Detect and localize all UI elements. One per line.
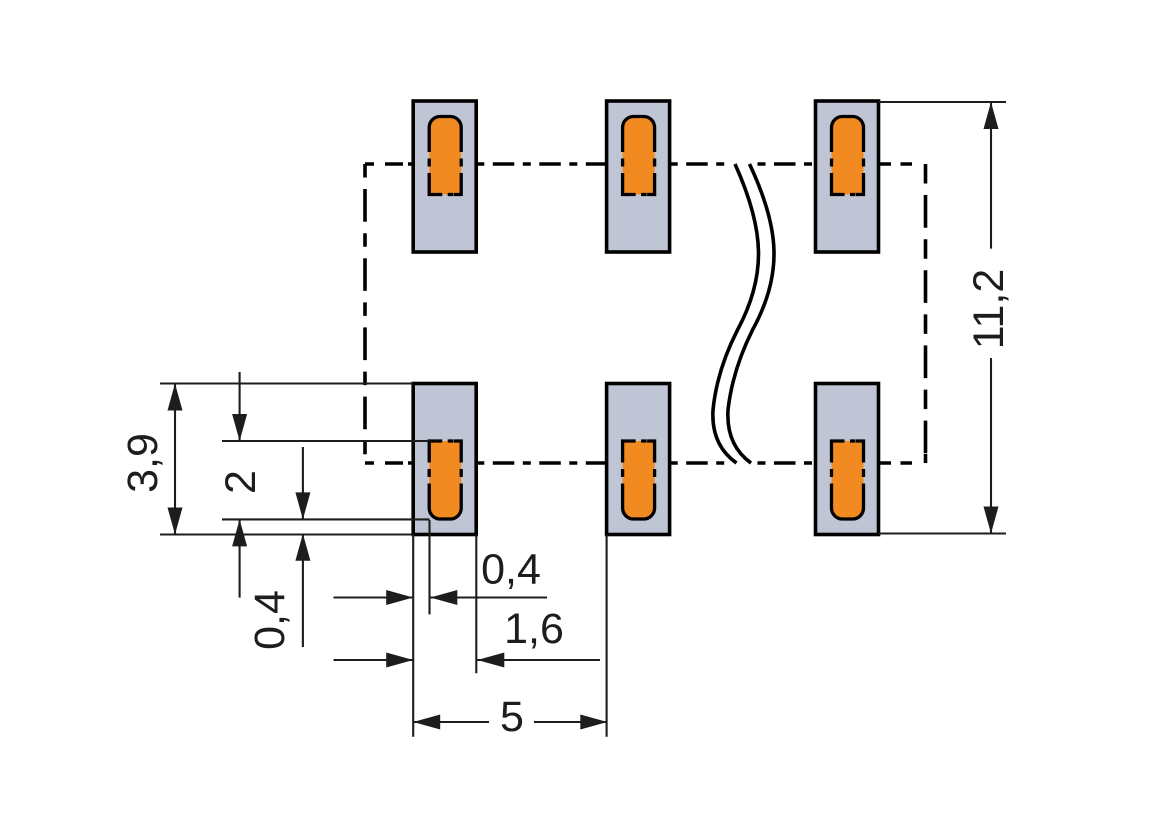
ext line orange bottom y=519.4 [222,518,430,520]
pad P5 bottom row col2 [607,384,670,535]
5 right at 607.3 [580,715,607,730]
2 down at 441 [232,414,247,441]
ext line top of bottom pad y=383.5 [160,382,413,384]
0,4B right at 413.2 [386,590,413,605]
ext vertical col2 left x=606.6 [606,535,608,737]
svg-text:5: 5 [500,693,524,741]
dim 1,6 line y=660 [334,659,601,661]
ext line orange top y=441 [222,440,430,442]
break squiggle line 2 [728,164,774,463]
3,9 down [168,508,183,535]
svg-text:0,4: 0,4 [246,590,294,650]
pad P6 bottom row col3 [816,384,879,535]
break squiggle line 1 [713,164,759,463]
svg-text:2: 2 [217,470,265,494]
ext right bottom y=533.5 [879,532,1007,534]
arrowheads [168,102,999,730]
11,2 down at 533.5 [984,507,999,534]
ext line pad bottom y=534.5 [160,533,413,535]
dim 5 line y=722 [413,721,607,723]
0,4L up at 533.8 [295,534,310,561]
11,2 up at 102 [984,102,999,129]
5 left at 413.2 [413,715,440,730]
ext right top y=102 [879,101,1007,103]
2 up at 519.4 [232,519,247,546]
1,6 left at 477.3 [477,653,504,668]
body outline left edge [363,164,367,463]
ext vertical gray left x=413.2 [412,535,414,737]
3,9 up [168,384,183,411]
dimension graphics [160,102,1006,737]
pad P4 bottom row col1 [413,384,476,535]
dim 0,4 bottom line y=597.5 [334,596,548,598]
1,6 right at 413.2 [386,653,413,668]
pad P3 top row col3 [816,101,879,252]
svg-text:1,6: 1,6 [504,605,564,653]
svg-text:0,4: 0,4 [481,546,541,594]
dim 3,9 line [174,384,176,535]
pad P2 top row col2 [607,101,670,252]
pad P1 top row col1 [413,101,476,252]
body outline right edge corner stub [924,454,928,463]
svg-text:11,2: 11,2 [965,269,1013,350]
dim 11,2 line [990,102,992,534]
dim 2 leaders [239,372,241,598]
dim 0,4 left leaders [302,447,304,647]
ext vertical orange left x=429.5 [428,520,430,614]
0,4L down at 519.4 [295,492,310,519]
body outline right edge [924,164,928,463]
svg-text:3,9: 3,9 [119,433,167,493]
body outline bottom center line y=463 [365,461,926,465]
body outline top center line y=164 [365,162,926,166]
0,4B left at 430.3 [430,590,457,605]
ext vertical gray right x=476.3 [475,535,477,674]
